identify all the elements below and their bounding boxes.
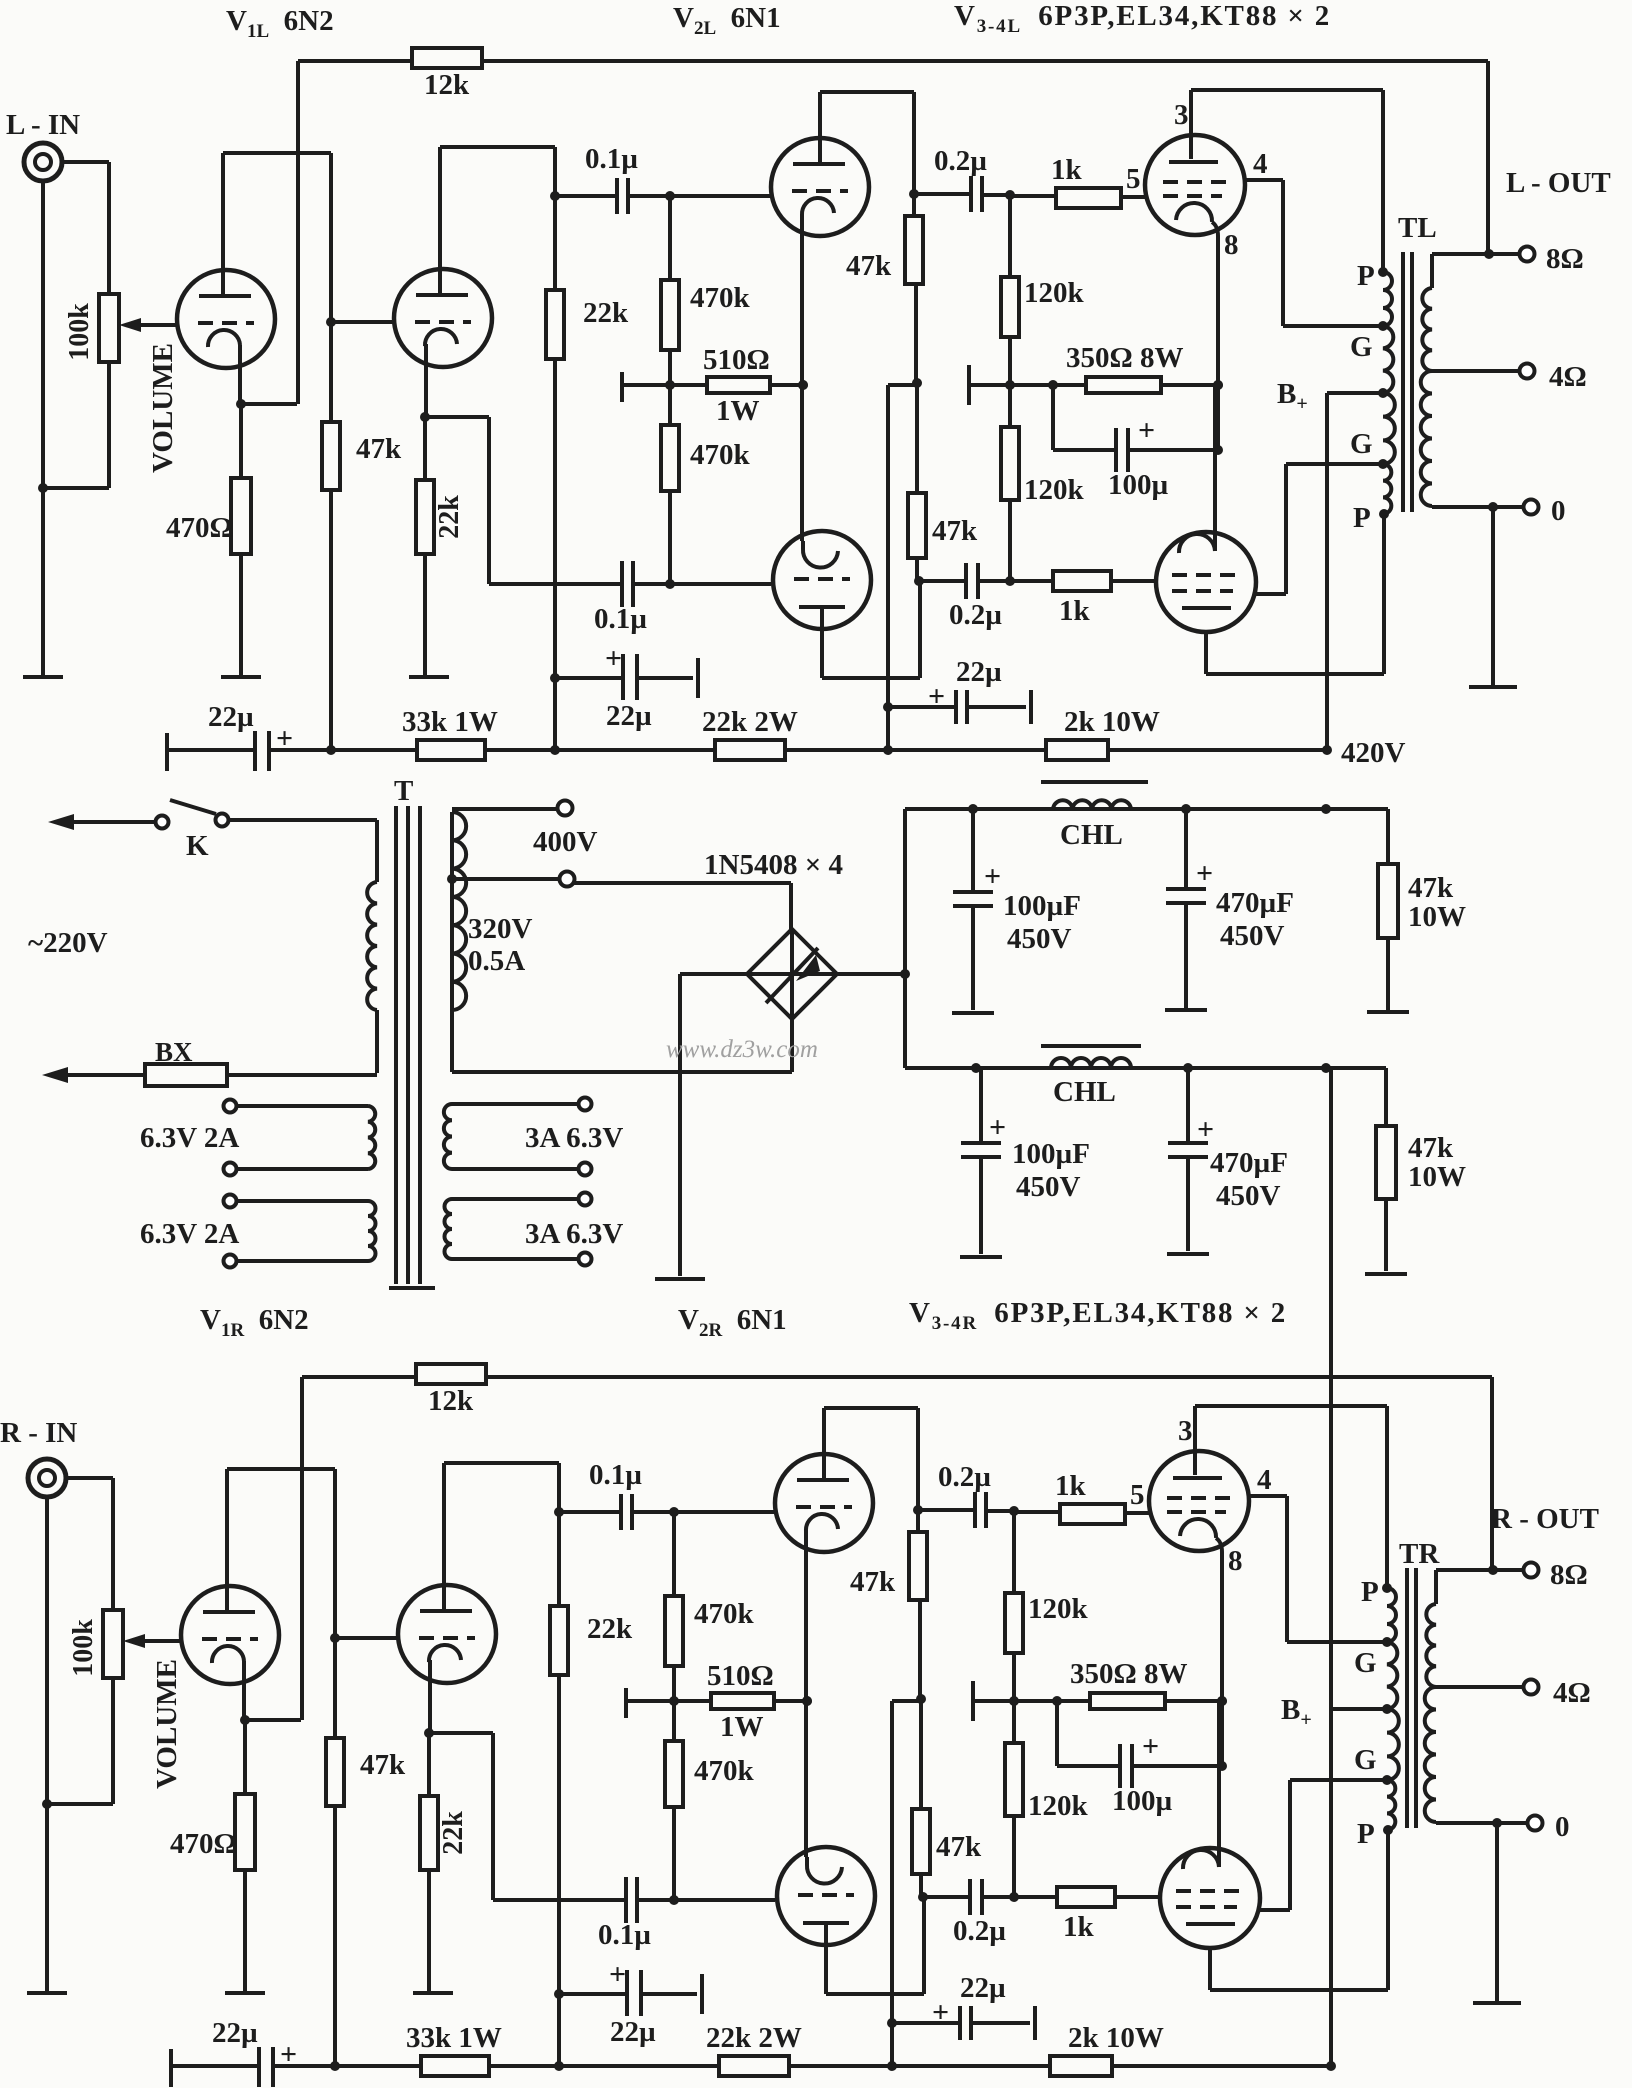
- svg-text:450V: 450V: [1216, 1180, 1281, 1212]
- svg-text:CHL: CHL: [1053, 1076, 1116, 1108]
- svg-text:450V: 450V: [1220, 920, 1285, 952]
- svg-text:320V: 320V: [468, 913, 533, 945]
- svg-text:www.dz3w.com: www.dz3w.com: [666, 1036, 818, 1063]
- svg-text:TR: TR: [1399, 1538, 1440, 1570]
- svg-text:100µF: 100µF: [1003, 890, 1081, 922]
- svg-text:400V: 400V: [533, 826, 598, 858]
- svg-text:~220V: ~220V: [28, 927, 108, 959]
- svg-text:100µF: 100µF: [1012, 1138, 1090, 1170]
- svg-text:V2R 6N1: V2R 6N1: [678, 1304, 787, 1341]
- svg-text:V1R 6N2: V1R 6N2: [200, 1304, 309, 1341]
- svg-text:470µF: 470µF: [1210, 1147, 1288, 1179]
- svg-text:L - IN: L - IN: [6, 109, 80, 141]
- svg-text:10W: 10W: [1408, 1161, 1466, 1193]
- svg-text:R - IN: R - IN: [0, 1417, 77, 1449]
- svg-text:47k: 47k: [1408, 1132, 1454, 1164]
- svg-text:V2L 6N1: V2L 6N1: [673, 2, 781, 39]
- svg-text:3A 6.3V: 3A 6.3V: [525, 1218, 623, 1250]
- svg-text:T: T: [394, 775, 413, 807]
- svg-text:CHL: CHL: [1060, 819, 1123, 851]
- svg-text:6.3V 2A: 6.3V 2A: [140, 1218, 239, 1250]
- svg-text:V1L 6N2: V1L 6N2: [226, 5, 334, 42]
- svg-text:+: +: [984, 860, 1001, 893]
- svg-text:450V: 450V: [1016, 1171, 1081, 1203]
- svg-text:L - OUT: L - OUT: [1506, 167, 1611, 199]
- svg-text:+: +: [1197, 1113, 1214, 1146]
- svg-text:+: +: [1196, 857, 1213, 890]
- svg-text:R - OUT: R - OUT: [1491, 1503, 1599, 1535]
- svg-text:TL: TL: [1398, 212, 1437, 244]
- svg-text:+: +: [989, 1111, 1006, 1144]
- svg-text:420V: 420V: [1341, 737, 1406, 769]
- svg-text:47k: 47k: [1408, 872, 1454, 904]
- svg-text:0.5A: 0.5A: [468, 945, 525, 977]
- svg-text:3A 6.3V: 3A 6.3V: [525, 1122, 623, 1154]
- svg-text:450V: 450V: [1007, 923, 1072, 955]
- svg-text:BX: BX: [155, 1037, 193, 1067]
- svg-text:470µF: 470µF: [1216, 887, 1294, 919]
- svg-text:K: K: [186, 830, 209, 862]
- svg-text:10W: 10W: [1408, 901, 1466, 933]
- svg-text:6.3V 2A: 6.3V 2A: [140, 1122, 239, 1154]
- svg-text:1N5408 × 4: 1N5408 × 4: [704, 849, 843, 881]
